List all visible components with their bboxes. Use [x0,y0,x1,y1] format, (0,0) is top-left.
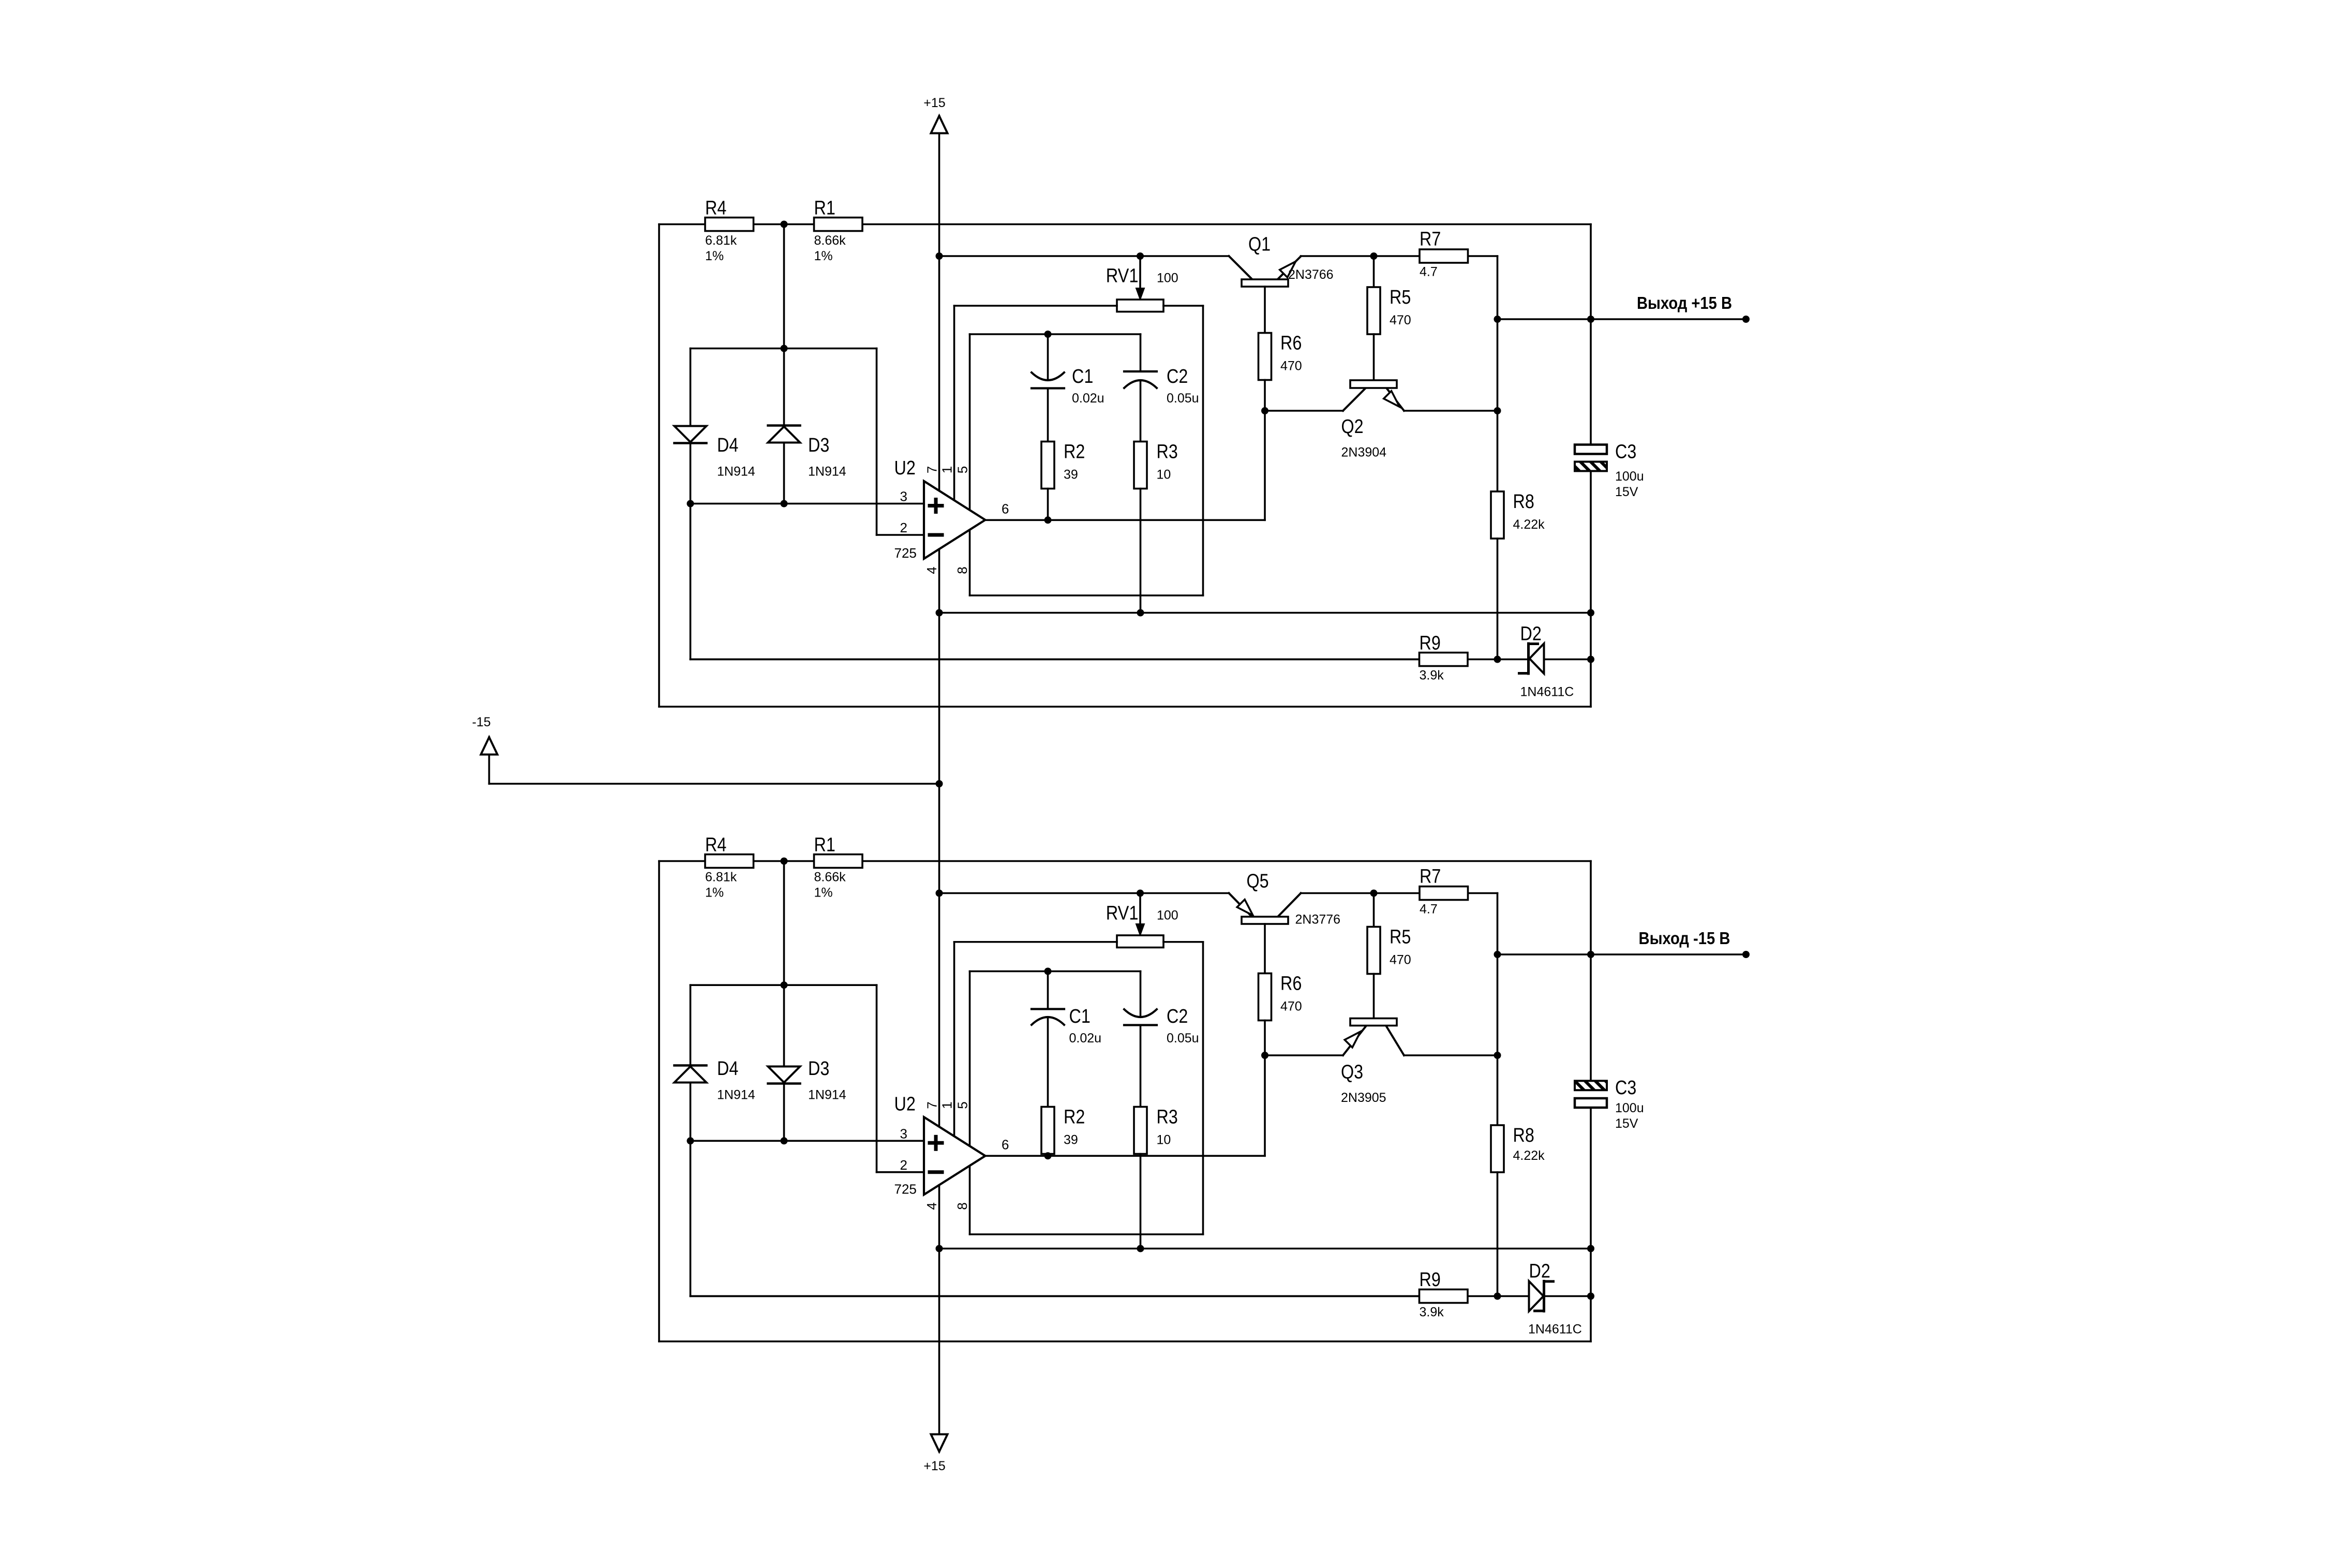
wire main top horizontal [659,223,1591,226]
svg-text:725: 725 [894,545,917,561]
svg-text:Q2: Q2 [1341,416,1364,438]
Q1 base lead [1264,287,1266,333]
node junction D2 outer right [1587,656,1594,663]
wire main bottom horizontal [659,860,1591,862]
svg-text:1N914: 1N914 [717,465,755,479]
capacitor C1 top lead [1047,334,1049,380]
svg-text:7: 7 [924,466,940,473]
Q5 base lead [1264,924,1266,974]
capacitor C2 top lead (bottom) [1140,972,1142,1018]
transistor Q2 base bar [1350,380,1397,388]
svg-text:15V: 15V [1615,485,1638,499]
node junction box top D3 (bottom) [781,981,788,989]
capacitor C3 plain plate (bottom) [1575,1098,1607,1108]
R2 bottom lead [1047,489,1049,520]
transistor Q3 emitter diagonal [1386,1026,1404,1055]
wire pin5 to C1 C2 top rail (bottom) [969,972,971,1146]
node junction rail -15 branch [936,780,943,787]
transistor Q1 collector diagonal [1229,256,1253,280]
power +15 arrow (top) [931,116,948,133]
resistor R6 [1259,333,1272,380]
resistor R8 (bottom) [1491,1125,1504,1172]
diode D4 (bottom) [675,1064,707,1067]
resistor R3 [1134,442,1147,489]
wire RV1 left terminal to pin1 [954,305,1117,307]
node junction rail pin4 [936,609,943,617]
svg-text:1%: 1% [705,886,724,900]
R5 top lead [1373,256,1375,287]
node junction R3 pin4 [1137,609,1144,617]
wire outer bottom (bottom half) [659,1340,1591,1342]
svg-text:R1: R1 [814,834,835,856]
node junction R5 R7 (bottom) [1370,890,1378,897]
transistor Q5 collector diagonal [1278,893,1301,917]
svg-text:0.02u: 0.02u [1072,391,1104,406]
svg-text:1: 1 [939,1101,955,1109]
svg-text:1%: 1% [814,886,833,900]
svg-text:+15: +15 [923,96,945,110]
svg-text:4.7: 4.7 [1420,902,1438,917]
transistor Q5 emitter diagonal [1229,893,1252,917]
svg-text:470: 470 [1280,999,1302,1014]
resistor R9 [1420,653,1468,666]
node junction R2 output (bottom) [1044,1152,1052,1159]
resistor R5 (bottom) [1367,927,1380,974]
svg-text:8: 8 [954,566,970,574]
svg-text:470: 470 [1280,359,1302,374]
svg-text:Q3: Q3 [1341,1062,1363,1083]
transistor Q1 emitter arrowhead [1280,262,1296,278]
capacitor C1 [1032,372,1064,380]
svg-text:R9: R9 [1420,633,1441,654]
svg-text:R4: R4 [705,834,726,856]
node junction rail pin4 (bottom) [936,1245,943,1252]
svg-text:1%: 1% [814,249,833,263]
wire output rise to Q2 collector net [1264,411,1266,520]
capacitor C2 (bottom) [1124,1009,1157,1017]
svg-text:0.02u: 0.02u [1069,1031,1102,1046]
svg-text:4: 4 [924,1202,939,1209]
R5 bottom lead to Q2 base [1373,334,1375,380]
wire op-amp output (bottom) [986,1155,1265,1157]
svg-text:470: 470 [1390,313,1411,327]
svg-text:39: 39 [1064,468,1078,482]
svg-text:U2: U2 [894,457,916,479]
wire outer left vertical (bottom) [658,861,660,1342]
svg-text:RV1: RV1 [1106,265,1139,287]
node junction Q2 emitter R8 [1494,407,1501,414]
op-amp U2 minus symbol [930,533,942,537]
svg-text:D2: D2 [1520,623,1542,645]
resistor R2 (bottom) [1041,1107,1054,1154]
wire R9 D2 line (top half) [691,659,1529,661]
svg-text:R3: R3 [1157,441,1178,463]
svg-text:100u: 100u [1615,469,1644,484]
svg-text:6.81k: 6.81k [705,233,737,248]
node junction D4 pin3 [687,500,694,507]
R2 bottom lead (bottom) [1047,1154,1049,1156]
diode D3 [768,424,800,427]
node junction R8 R9 D2 [1494,656,1501,663]
svg-text:C1: C1 [1069,1006,1091,1027]
wire RV1 rail line [939,255,1229,257]
D2 anode lead [1544,659,1591,661]
capacitor C1 top lead (bottom) [1047,972,1049,1009]
node junction R4-R1-D3 (bottom) [781,858,788,865]
wire op-amp pin2 net [876,349,878,535]
wire op-amp pin3 net [691,503,924,505]
diode D3 (bottom) [768,1067,800,1083]
node junction R6 Q3 (bottom) [1261,1052,1268,1059]
node junction C1 top [1044,331,1052,338]
potentiometer RV1 body (bottom) [1117,935,1163,948]
wire RV1 right terminal via box to pin8 (bottom) [1163,941,1203,943]
diode D4 lead (bottom) [690,985,692,1065]
wire D4 branch down to R9 line (bottom) [690,1141,692,1296]
svg-text:R6: R6 [1280,973,1302,995]
svg-text:4: 4 [924,566,939,574]
svg-text:D4: D4 [717,1058,738,1080]
wire Q2 collector net [1265,410,1343,412]
diode D3 lower lead [783,443,785,504]
wire R9 D2 line (bottom half) [691,1295,1529,1297]
svg-text:D3: D3 [808,1058,829,1080]
svg-text:3: 3 [900,1126,907,1141]
svg-text:5: 5 [955,1101,971,1109]
svg-text:+15: +15 [923,1459,945,1473]
svg-text:1N4611C: 1N4611C [1528,1322,1582,1337]
wire output rise to Q3 collector net (bottom) [1264,1055,1266,1156]
svg-text:2N3905: 2N3905 [1341,1091,1386,1105]
svg-text:2N3776: 2N3776 [1295,913,1341,927]
C1 bottom lead [1047,389,1049,442]
op-amp U2 plus symbol [930,1141,942,1145]
resistor R7 (bottom) [1420,887,1468,900]
node junction pin4 outer right [1587,609,1594,617]
node junction R4-R1-D3 [781,221,788,228]
diode D3 lead (bottom) [783,985,785,1066]
svg-text:100: 100 [1157,908,1178,923]
power +15 rail (top vertical) [938,116,940,491]
svg-text:1: 1 [939,466,955,473]
wire -15 branch [488,737,490,784]
svg-text:RV1: RV1 [1106,903,1139,924]
svg-text:R5: R5 [1390,927,1411,948]
C2 bottom lead (bottom) [1140,1025,1142,1107]
wire op-amp pin2 net (bottom) [876,985,878,1172]
transistor Q3 collector diagonal [1343,1026,1366,1055]
zener diode D2 (bottom) [1529,1281,1544,1311]
potentiometer RV1 body [1117,300,1163,312]
node junction pin4 outer right (bottom) [1587,1245,1594,1252]
node junction Q3 emitter R8 (bottom) [1494,1052,1501,1059]
resistor R8 [1491,491,1504,539]
node junction R2 output [1044,516,1052,524]
svg-text:R9: R9 [1420,1269,1441,1291]
rail bottom section [938,1185,940,1452]
R3 bottom lead to pin4 line [1140,489,1142,613]
svg-text:-15: -15 [472,715,491,729]
resistor R1 (bottom) [814,855,863,868]
svg-text:2N3904: 2N3904 [1341,445,1387,460]
node junction output R7vert [1494,316,1501,323]
transistor Q5 emitter arrowhead [1237,900,1253,916]
node junction D4 pin3 (bottom) [687,1137,694,1144]
svg-text:8.66k: 8.66k [814,233,846,248]
R3 bottom lead to pin4 line (bottom) [1140,1154,1142,1249]
wire RV1 right terminal via box to pin8 [1163,305,1203,307]
output terminal dot +15 [1742,316,1750,323]
svg-text:6: 6 [1002,501,1009,516]
wire outer bottom (top half) [659,706,1591,708]
node junction R6 Q2 [1261,407,1268,414]
wire outer right vertical (bottom half) [1590,861,1592,1081]
op-amp U2 minus symbol [930,1170,942,1174]
svg-text:5: 5 [955,466,971,473]
svg-text:39: 39 [1064,1133,1078,1147]
svg-text:1N914: 1N914 [808,1088,846,1102]
diode D4 [675,426,707,442]
op-amp U2 triangle [924,1117,986,1194]
capacitor C3 hatched plate (bottom) [1575,1081,1607,1090]
svg-text:2: 2 [900,520,907,535]
wire Q3 emitter to R8 vertical (bottom) [1404,1054,1498,1056]
svg-text:1N914: 1N914 [717,1088,755,1102]
capacitor C1 (bottom) [1032,1008,1064,1010]
resistor R3 (bottom) [1134,1107,1147,1154]
diode D4 lower lead (bottom) [690,1083,692,1141]
svg-text:6.81k: 6.81k [705,870,737,885]
wire D3-D4 box top (top half) [783,225,785,349]
transistor Q2 emitter arrowhead [1384,391,1400,407]
node junction R3 pin4 (bottom) [1137,1245,1144,1252]
wire op-amp output (top) [986,519,1265,521]
svg-text:Q1: Q1 [1248,234,1271,256]
transistor Q3 base bar [1350,1019,1397,1026]
C1 bottom lead (bottom) [1047,1017,1049,1107]
svg-text:10: 10 [1157,468,1171,482]
wire pin4 line (top half) [939,612,1591,614]
transistor Q3 emitter arrowhead (PNP into bar) [1345,1032,1361,1048]
svg-text:R8: R8 [1513,491,1534,513]
svg-text:C1: C1 [1072,366,1093,387]
node junction R5 R7 [1370,252,1378,260]
diode D3 lower lead (bottom) [783,1085,785,1141]
svg-text:10: 10 [1157,1133,1171,1147]
node junction C1 top (bottom) [1044,968,1052,975]
wire Q2 emitter to R8 vertical [1404,410,1498,412]
wire R7 right vertical (bottom) [1497,893,1499,1126]
op-amp U2 plus symbol [930,504,942,507]
node junction R8 R9 D2 (bottom) [1494,1293,1501,1300]
svg-text:8.66k: 8.66k [814,870,846,885]
node junction D3 pin3 [781,500,788,507]
diode D4 lead [690,349,692,426]
svg-text:0.05u: 0.05u [1167,1031,1199,1046]
svg-text:C2: C2 [1167,1006,1188,1027]
resistor R7 [1420,249,1468,263]
wire pin4 line (bottom half) [939,1248,1591,1250]
R5 bottom lead to Q3 base (bottom) [1373,974,1375,1019]
svg-text:3: 3 [900,489,907,504]
svg-text:2N3766: 2N3766 [1288,267,1334,282]
svg-text:8: 8 [954,1202,970,1209]
power +15 arrow (bottom) [931,1435,948,1452]
node junction D3 pin3 (bottom) [781,1137,788,1144]
R6 bottom lead (bottom) [1264,1021,1266,1056]
node junction RV1 wiper (bottom) [1137,890,1144,897]
svg-text:2: 2 [900,1157,907,1173]
svg-text:D4: D4 [717,435,738,456]
svg-text:R6: R6 [1280,333,1302,354]
power -15 arrow [481,737,498,755]
svg-text:R2: R2 [1064,1107,1085,1128]
svg-text:3.9k: 3.9k [1420,1305,1444,1320]
capacitor C3 bottom plate hatched [1575,462,1607,471]
svg-text:D2: D2 [1529,1261,1550,1282]
op-amp U2 triangle [924,481,986,559]
transistor Q1 emitter diagonal [1277,257,1301,280]
svg-text:100u: 100u [1615,1101,1644,1115]
svg-text:470: 470 [1390,953,1411,967]
svg-text:4.7: 4.7 [1420,265,1438,279]
capacitor C3 top plate [1575,445,1607,454]
node junction D2 outer right (bottom) [1587,1293,1594,1300]
svg-text:100: 100 [1157,271,1178,286]
wire output -15 line [1498,953,1746,955]
svg-text:4.22k: 4.22k [1513,1148,1545,1163]
wire output +15 line [1498,318,1746,320]
svg-text:R1: R1 [814,198,835,219]
node junction output R7vert (bottom) [1494,951,1501,958]
wire D4 branch down to R9 line [690,504,692,660]
capacitor C2 top lead [1140,334,1142,371]
zener diode D2 [1530,644,1544,674]
output terminal dot -15 [1742,951,1750,958]
svg-text:1N914: 1N914 [808,465,846,479]
svg-text:15V: 15V [1615,1116,1638,1131]
wire RV1 left terminal to pin1 (bottom) [954,941,1117,943]
svg-text:U2: U2 [894,1093,916,1115]
svg-text:D3: D3 [808,435,829,456]
wire outer right vertical (top half) [1590,225,1592,445]
svg-text:R3: R3 [1157,1107,1178,1128]
wire D3-D4 box top (bottom half) [783,861,785,985]
resistor R4 [705,218,754,231]
svg-text:1%: 1% [705,249,724,263]
svg-text:7: 7 [924,1101,940,1109]
resistor R4 (bottom) [705,855,754,868]
svg-text:Выход -15 В: Выход -15 В [1639,929,1730,948]
transistor Q2 emitter diagonal [1386,388,1404,411]
R6 bottom lead [1264,380,1266,411]
diode D4 lower lead [690,444,692,504]
wire pin5 to C1 C2 top rail [969,334,971,510]
wire op-amp pin3 net (bottom) [691,1140,924,1142]
resistor R9 (bottom) [1420,1290,1468,1303]
RV1 wiper arrow (bottom) [1139,893,1141,931]
svg-text:R7: R7 [1420,866,1441,888]
svg-text:Выход +15 В: Выход +15 В [1637,293,1732,312]
svg-text:R8: R8 [1513,1125,1534,1146]
R8 bottom lead (bottom) [1497,1172,1499,1296]
C2 bottom lead [1140,380,1142,442]
svg-text:0.05u: 0.05u [1167,391,1199,406]
resistor R1 [814,218,863,231]
node junction rail RV1 line (bottom) [936,890,943,897]
wire Q5 collector to R7 (bottom) [1301,892,1498,894]
D2 cathode lead (bottom) [1544,1295,1591,1297]
resistor R6 (bottom) [1259,974,1272,1021]
diode D3 lead [783,349,785,427]
capacitor C2 [1124,370,1157,372]
svg-text:R4: R4 [705,198,726,219]
svg-text:R7: R7 [1420,229,1441,250]
svg-text:1N4611C: 1N4611C [1520,685,1574,699]
svg-text:R5: R5 [1390,287,1411,308]
svg-text:725: 725 [894,1181,917,1197]
R8 bottom lead [1497,539,1499,660]
node junction box top D3 [781,345,788,352]
svg-text:Q5: Q5 [1247,871,1269,892]
svg-text:C3: C3 [1615,441,1636,463]
node junction RV1 wiper [1137,252,1144,260]
svg-text:4.22k: 4.22k [1513,517,1545,532]
RV1 wiper arrow [1139,256,1141,295]
svg-text:C2: C2 [1167,366,1188,387]
transistor Q1 base bar [1242,279,1288,287]
node junction rail RV1 line [936,252,943,260]
wire RV1 rail line (bottom) [939,892,1229,894]
svg-text:R2: R2 [1064,441,1085,463]
resistor R5 [1367,287,1380,334]
wire Q1 emitter to R7 [1301,255,1498,257]
transistor Q5 base bar [1242,917,1288,924]
svg-text:3.9k: 3.9k [1420,668,1444,683]
rail mid section [938,549,940,1126]
wire Q3 collector net (bottom) [1265,1054,1343,1056]
svg-text:6: 6 [1002,1137,1009,1152]
resistor R2 [1041,442,1054,489]
wire outer left vertical (top) [658,225,660,707]
R5 top lead (bottom) [1373,893,1375,927]
node junction output outer vertical [1587,316,1594,323]
transistor Q2 collector diagonal [1343,388,1366,411]
svg-text:C3: C3 [1615,1077,1636,1099]
node junction output outer vertical (bottom) [1587,951,1594,958]
wire R7 right vertical [1497,256,1499,491]
